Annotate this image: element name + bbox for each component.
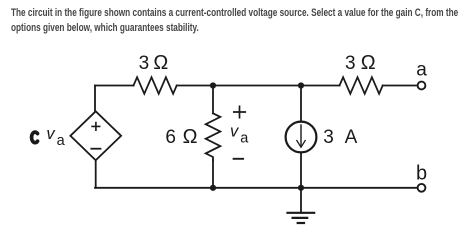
- wire top-left horizontal: [95, 85, 134, 87]
- node junction dot top-left (6-ohm top): [210, 82, 216, 88]
- wire 6-ohm branch top lead: [212, 86, 214, 114]
- terminal b open circle: [418, 184, 426, 192]
- current source arrow: [300, 125, 302, 145]
- svg-text:3: 3: [323, 127, 334, 148]
- wire bottom horizontal to terminal b: [95, 187, 417, 189]
- wire current source bottom lead: [300, 152, 302, 187]
- svg-text:Ω: Ω: [361, 52, 376, 74]
- wire 6-ohm branch bottom lead: [212, 160, 214, 188]
- wire top-right horizontal to terminal a: [383, 85, 417, 87]
- svg-text:6: 6: [165, 127, 176, 148]
- current source arrowhead: [297, 141, 305, 148]
- svg-text:a: a: [57, 133, 66, 149]
- svg-text:a: a: [240, 130, 249, 146]
- svg-text:Ω: Ω: [183, 126, 198, 148]
- terminal a open circle: [418, 82, 426, 90]
- wire current source top lead: [300, 86, 302, 121]
- svg-text:v: v: [230, 123, 240, 141]
- svg-text:3: 3: [345, 53, 356, 74]
- svg-text:a: a: [416, 59, 427, 80]
- wire left vertical lower: [95, 160, 97, 188]
- va polarity plus sign: [234, 106, 245, 117]
- dependent source U1 diamond: [70, 111, 121, 160]
- dependent source plus sign: [92, 123, 100, 131]
- gain C bold glyph of controlling label: [32, 132, 38, 143]
- dependent source minus sign: [91, 148, 100, 150]
- svg-text:b: b: [416, 162, 427, 184]
- svg-text:v: v: [46, 125, 56, 143]
- ground bar 1: [288, 212, 315, 214]
- wire top-middle horizontal: [177, 85, 340, 87]
- wire left vertical upper: [94, 86, 96, 112]
- svg-text:3: 3: [139, 53, 150, 74]
- node junction dot bottom-left (6-ohm bottom): [210, 185, 216, 191]
- node junction dot bottom-right (ground node): [298, 185, 304, 191]
- resistor R3 3-ohm right zigzag: [340, 77, 383, 94]
- resistor R2 6-ohm vertical zigzag: [206, 113, 221, 160]
- resistor R1 3-ohm left zigzag: [134, 77, 177, 94]
- ground bar 2: [293, 217, 308, 219]
- ground bar 3: [298, 222, 304, 224]
- node junction dot top-right (source top): [298, 82, 304, 88]
- svg-text:Ω: Ω: [153, 52, 168, 74]
- va polarity minus sign: [234, 158, 244, 160]
- current source I1 circle: [286, 122, 317, 153]
- ground stem: [300, 188, 302, 213]
- svg-text:A: A: [345, 127, 358, 148]
